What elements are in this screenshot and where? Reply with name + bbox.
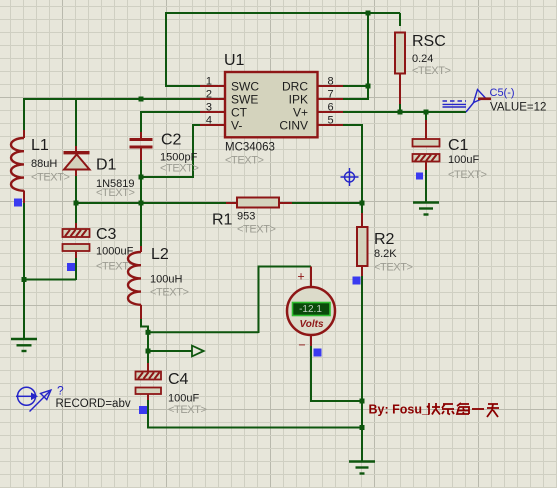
label L2 value 100uH (150, 274, 182, 286)
op-amp U1 MC34063 (225, 72, 318, 137)
label R1 value 953 (237, 211, 255, 223)
svg-text:C2: C2 (161, 132, 182, 149)
pin 6 V+ (293, 102, 343, 120)
label recorder ? (57, 384, 64, 398)
svg-text:C3: C3 (96, 226, 117, 243)
label L1 text (31, 172, 70, 184)
label L1 ref (31, 137, 49, 154)
svg-text:CINV: CINV (279, 119, 308, 133)
wire pin2 SWE to L1 (24, 98, 200, 130)
svg-text:-12.1: -12.1 (299, 304, 322, 315)
svg-text:DRC: DRC (282, 80, 308, 94)
wire R1 to R2 node (292, 202, 362, 204)
svg-text:SWC: SWC (231, 80, 259, 94)
label C4 ref (168, 371, 189, 388)
label RECORD=abv (56, 398, 131, 410)
svg-text:C5(-): C5(-) (490, 87, 515, 99)
svg-text:2: 2 (206, 89, 212, 101)
wire pin1 SWC to top rail (165, 12, 400, 87)
marker voltmeter origin (314, 349, 322, 357)
marker L1 origin (14, 199, 22, 207)
label U1 ref (224, 52, 245, 69)
svg-text:C1: C1 (448, 137, 469, 154)
junction output node (146, 330, 151, 335)
wire pin5 CINV (343, 124, 362, 203)
wire pin4 V- (141, 124, 200, 177)
wire pin8 DRC (343, 85, 368, 87)
svg-text:+: + (297, 270, 304, 284)
label C3 text (96, 261, 135, 273)
capacitor C2 (130, 132, 153, 177)
label C3 value 1000uF (96, 246, 134, 258)
inductor L1 (11, 130, 24, 204)
label L1 value 88uH (31, 158, 57, 170)
wire pin6 V+ bus (343, 111, 466, 113)
svg-text:<TEXT>: <TEXT> (31, 172, 70, 184)
label U1 text (225, 155, 264, 167)
resistor RSC (395, 33, 405, 113)
svg-text:IPK: IPK (289, 93, 308, 107)
svg-text:L1: L1 (31, 137, 49, 154)
diode D1 (64, 99, 90, 203)
label C2 ref (161, 132, 182, 149)
inductor L2 (128, 203, 141, 320)
pin 5 CINV (279, 115, 343, 133)
svg-text:Volts: Volts (299, 319, 324, 330)
capacitor C4 (136, 350, 162, 402)
junction SWE / C2 node (139, 97, 144, 102)
pin 7 IPK (289, 89, 343, 107)
wire R2 to ground (361, 276, 363, 461)
wire pin3 CT to C2 (141, 111, 200, 132)
junction voltmeter minus / R2 (360, 399, 365, 404)
wire C2 node down (140, 177, 142, 203)
svg-text:0.24: 0.24 (412, 53, 433, 65)
label RSC value 0.24 (412, 53, 433, 65)
capacitor C3 (63, 203, 90, 258)
label R1 ref (212, 212, 233, 229)
label C3 ref (96, 226, 117, 243)
svg-text:100uH: 100uH (150, 274, 182, 286)
terminal output arrow (148, 346, 204, 357)
svg-text:<TEXT>: <TEXT> (374, 262, 413, 274)
label R2 ref (374, 231, 395, 248)
label L2 text (150, 287, 189, 299)
svg-text:7: 7 (328, 89, 334, 101)
label C1 ref (448, 137, 469, 154)
svg-text:1: 1 (206, 76, 212, 88)
junction DRC pin8 (366, 84, 371, 89)
label D1 value 1N5819 (96, 178, 135, 190)
svg-text:100uF: 100uF (168, 393, 199, 405)
pin 4 V- (200, 115, 242, 133)
svg-text:<TEXT>: <TEXT> (160, 163, 199, 175)
junction V+ / RSC (398, 110, 403, 115)
wire DRC-IPK riser (367, 13, 369, 86)
label R1 text (237, 224, 276, 236)
resistor R1 (226, 198, 292, 208)
label probe C5(-) (490, 87, 515, 99)
label By Fosu signature (369, 403, 500, 418)
wire D1/L2 node to R1 (76, 202, 226, 204)
pin 1 SWC (200, 76, 259, 94)
label RSC text (412, 65, 451, 77)
svg-text:RECORD=abv: RECORD=abv (56, 398, 131, 410)
svg-text:<TEXT>: <TEXT> (237, 224, 276, 236)
svg-text:8: 8 (328, 76, 334, 88)
marker C3 origin (67, 263, 75, 271)
svg-text:<TEXT>: <TEXT> (412, 65, 451, 77)
label U1 value MC34063 (225, 142, 275, 154)
svg-text:<TEXT>: <TEXT> (168, 404, 207, 416)
svg-text:R1: R1 (212, 212, 233, 229)
svg-text:RSC: RSC (412, 33, 446, 50)
svg-text:−: − (298, 338, 305, 352)
label D1 ref (96, 157, 117, 174)
svg-text:V+: V+ (293, 106, 308, 120)
label C2 text (160, 163, 199, 175)
label R2 value 8.2K (374, 248, 397, 260)
svg-text:R2: R2 (374, 231, 395, 248)
label C1 value 100uF (448, 154, 479, 166)
svg-text:<TEXT>: <TEXT> (448, 169, 487, 181)
svg-text:<TEXT>: <TEXT> (225, 155, 264, 167)
junction C2 bottom node (139, 175, 144, 180)
label D1 text (96, 187, 135, 199)
svg-text:V-: V- (231, 119, 242, 133)
svg-text:5: 5 (328, 115, 334, 127)
junction output terminal (146, 349, 151, 354)
pin 8 DRC (282, 76, 343, 94)
svg-text:4: 4 (206, 115, 212, 127)
ground L1 branch (11, 280, 37, 352)
marker C1 origin (416, 173, 423, 180)
junction node D1 (74, 201, 79, 206)
label R2 text (374, 262, 413, 274)
voltmeter probe (287, 267, 335, 353)
svg-text:CT: CT (231, 106, 248, 120)
wire C3 branch (24, 258, 76, 280)
svg-text:By: Fosu_: By: Fosu_ (369, 403, 430, 417)
svg-text:6: 6 (328, 102, 334, 114)
junction L1/C3 node (22, 277, 27, 282)
wire to output terminal (147, 331, 149, 351)
svg-text:953: 953 (237, 211, 255, 223)
marker crosshair origin (341, 168, 359, 186)
label C4 text (168, 404, 207, 416)
wire L2 to output node (140, 319, 148, 332)
svg-text:L2: L2 (151, 246, 169, 263)
capacitor C1 (413, 112, 440, 171)
pin 2 SWE (200, 89, 258, 107)
label RSC ref (412, 33, 446, 50)
svg-text:8.2K: 8.2K (374, 248, 397, 260)
svg-text:U1: U1 (224, 52, 245, 69)
label L2 ref (151, 246, 169, 263)
svg-text:D1: D1 (96, 157, 117, 174)
marker C4 origin (139, 406, 147, 414)
svg-text:<TEXT>: <TEXT> (150, 287, 189, 299)
label VALUE=12 (490, 102, 546, 114)
svg-text:MC34063: MC34063 (225, 142, 275, 154)
svg-text:88uH: 88uH (31, 158, 57, 170)
ground main (349, 462, 375, 474)
junction ground bus (360, 425, 365, 430)
label C2 value 1500pF (160, 152, 198, 164)
recorder symbol (16, 387, 51, 411)
marker R2 origin (353, 277, 361, 285)
wire output to voltmeter plus (148, 267, 311, 334)
junction V+ / C1 (424, 110, 429, 115)
wire top rail down to RSC (399, 13, 401, 26)
wire C4 to ground bus (147, 400, 362, 428)
wire voltmeter minus (310, 346, 362, 401)
probe C5(-) symbol (443, 90, 492, 113)
svg-text:VALUE=12: VALUE=12 (490, 102, 546, 114)
ground C1 (413, 170, 439, 215)
svg-text:100uF: 100uF (448, 154, 479, 166)
svg-text:<TEXT>: <TEXT> (96, 187, 135, 199)
wire pin7 IPK (343, 86, 368, 100)
junction node R2/CINV (360, 201, 365, 206)
junction top rail / IPK-DRC riser (366, 11, 371, 16)
pin 3 CT (200, 102, 248, 120)
svg-text:C4: C4 (168, 371, 189, 388)
svg-text:SWE: SWE (231, 93, 258, 107)
resistor R2 (357, 203, 368, 278)
svg-text:3: 3 (206, 102, 212, 114)
junction node L2/C2 (139, 201, 144, 206)
svg-text:?: ? (57, 384, 64, 398)
label C4 value 100uF (168, 393, 199, 405)
label C1 text (448, 169, 487, 181)
wire L1 to ground node (23, 203, 25, 280)
